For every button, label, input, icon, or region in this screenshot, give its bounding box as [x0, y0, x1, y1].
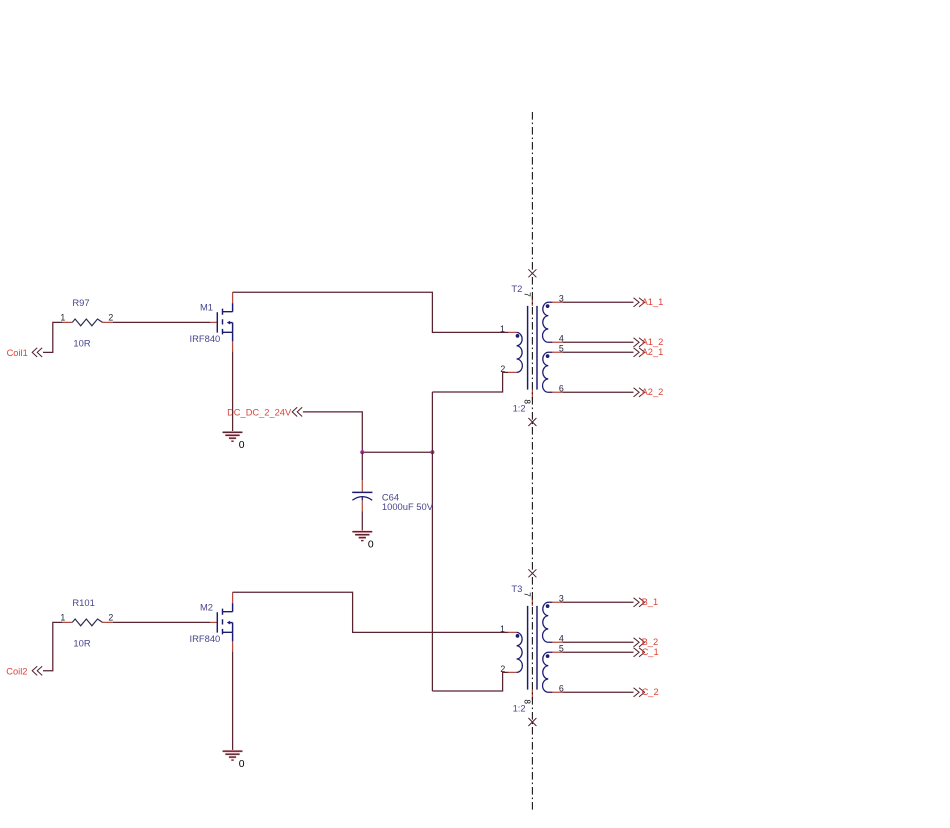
wire R97 to M1 gate — [113, 321, 211, 323]
transistor M1 — [190, 292, 233, 351]
node x mark above T3 — [528, 569, 536, 577]
resistor R101 — [60, 597, 113, 649]
wire Coil1 to R97 pin1 — [43, 322, 63, 352]
svg-text:7: 7 — [523, 292, 532, 297]
ground 0 at M2 source — [223, 751, 245, 770]
wire T2 pin3 to A1_1 — [563, 301, 634, 303]
svg-text:10R: 10R — [73, 638, 90, 649]
svg-text:1000uF 50V: 1000uF 50V — [382, 501, 434, 512]
svg-text:C_2: C_2 — [642, 687, 659, 697]
svg-text:DC_DC_2_24V: DC_DC_2_24V — [227, 407, 292, 417]
node junction at bus — [430, 450, 434, 454]
port Coil2 — [6, 666, 42, 676]
port DC_DC_2_24V — [227, 407, 302, 417]
svg-text:1: 1 — [60, 312, 65, 322]
port Coil1 — [7, 348, 43, 358]
svg-text:T3: T3 — [511, 583, 522, 594]
ground 0 at C64 — [352, 532, 374, 551]
svg-text:M2: M2 — [200, 601, 213, 612]
svg-text:Coil1: Coil1 — [7, 348, 28, 358]
wire junction to bus junction — [362, 451, 432, 453]
wire R101 to M2 gate — [113, 621, 211, 623]
wire M1 source to ground — [232, 352, 234, 432]
wire T2 pin6 to A2_2 — [563, 391, 634, 393]
svg-text:8: 8 — [523, 399, 532, 404]
svg-text:7: 7 — [523, 592, 532, 597]
svg-text:1: 1 — [500, 324, 505, 334]
node x mark below T3 — [528, 718, 536, 726]
svg-text:2: 2 — [108, 612, 113, 622]
port A1_2 — [634, 337, 664, 347]
svg-text:Coil2: Coil2 — [6, 666, 27, 676]
resistor R97 — [60, 297, 113, 349]
wire T3 pin5 to C_1 — [563, 651, 634, 653]
transistor M2 — [190, 592, 233, 651]
svg-text:IRF840: IRF840 — [190, 333, 221, 344]
node x mark above T2 — [528, 269, 536, 277]
svg-text:A2_2: A2_2 — [642, 387, 664, 397]
node junction at C64 — [360, 450, 364, 454]
svg-text:T2: T2 — [511, 283, 522, 294]
wire M1 drain to T2 pin1 — [233, 292, 508, 332]
wire T3 pin4 to B_2 — [563, 641, 634, 643]
svg-text:M1: M1 — [200, 301, 213, 312]
svg-text:0: 0 — [239, 440, 245, 451]
svg-text:1: 1 — [60, 612, 65, 622]
wire T3 pin6 to C_2 — [563, 691, 634, 693]
transformer T3 — [500, 583, 564, 714]
node x mark below T2 — [528, 418, 536, 426]
svg-text:B_2: B_2 — [642, 637, 659, 647]
wire T3 pin2 to bus — [432, 672, 508, 691]
wire T2 pin5 to A2_1 — [563, 351, 634, 353]
svg-text:R97: R97 — [72, 297, 89, 308]
svg-text:IRF840: IRF840 — [190, 633, 221, 644]
svg-text:8: 8 — [523, 699, 532, 704]
wire T2 pin4 to A1_2 — [563, 341, 634, 343]
svg-text:0: 0 — [239, 759, 245, 770]
svg-text:B_1: B_1 — [642, 597, 659, 607]
port B_2 — [634, 637, 659, 647]
svg-text:0: 0 — [368, 539, 374, 550]
svg-text:A1_2: A1_2 — [642, 337, 664, 347]
wire DC_DC_2_24V to junction — [303, 412, 362, 452]
transformer T2 — [500, 283, 564, 414]
wire Coil2 to R101 pin1 — [43, 622, 63, 670]
svg-text:A2_1: A2_1 — [642, 347, 664, 357]
svg-text:2: 2 — [500, 364, 505, 374]
svg-text:R101: R101 — [72, 597, 94, 608]
capacitor C64 — [352, 480, 434, 512]
wire C64 to ground — [361, 512, 363, 532]
svg-text:1: 1 — [500, 624, 505, 634]
ground 0 at M1 source — [223, 432, 245, 451]
svg-text:10R: 10R — [73, 338, 90, 349]
wire T2 pin2 to bus — [432, 372, 508, 392]
wire M2 source to ground — [232, 652, 234, 751]
svg-text:2: 2 — [500, 664, 505, 674]
port C_2 — [634, 687, 659, 697]
wire bus vertical — [431, 392, 433, 691]
svg-text:C_1: C_1 — [642, 647, 659, 657]
wire shield dash-dot line — [531, 112, 533, 810]
port C_1 — [634, 647, 659, 657]
wire M2 drain to T3 pin1 — [233, 592, 508, 632]
wire junction to C64 top — [361, 452, 363, 480]
wire T3 pin3 to B_1 — [563, 601, 634, 603]
port B_1 — [634, 597, 659, 607]
svg-text:A1_1: A1_1 — [642, 297, 664, 307]
port A2_1 — [634, 347, 664, 357]
port A2_2 — [634, 387, 664, 397]
port A1_1 — [634, 297, 664, 307]
svg-text:2: 2 — [108, 312, 113, 322]
